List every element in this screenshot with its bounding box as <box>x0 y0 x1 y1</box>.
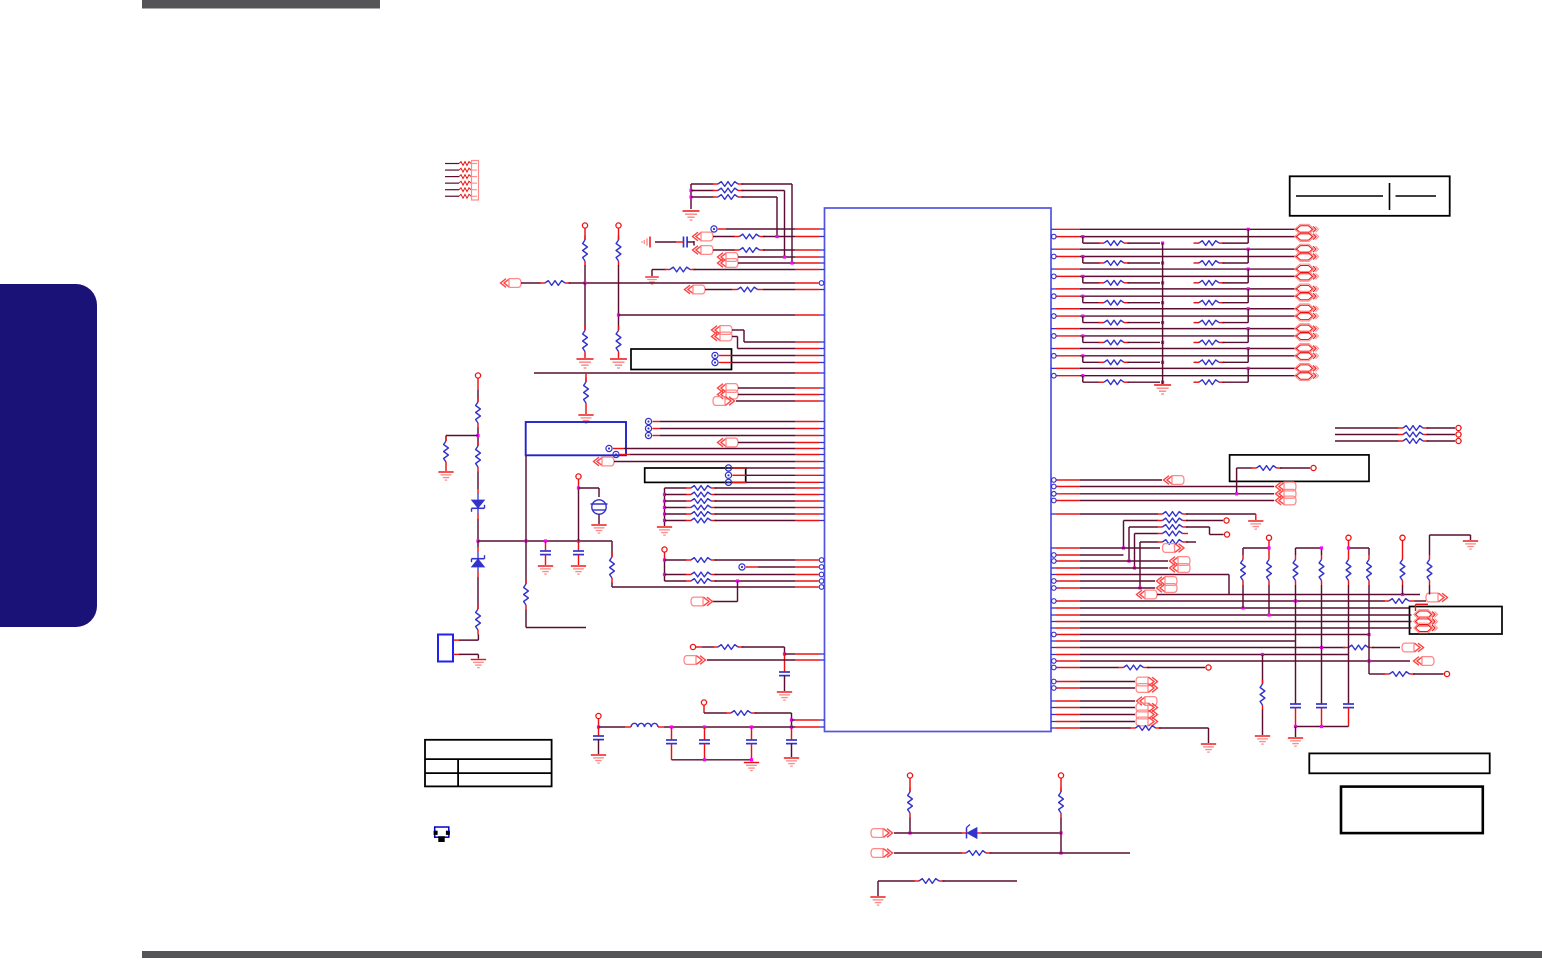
revision table <box>425 740 552 787</box>
row to connector stack <box>1057 493 1081 495</box>
wire <box>618 265 620 283</box>
resistor R112 <box>445 437 447 442</box>
wire <box>742 183 793 185</box>
wire <box>719 355 732 357</box>
row <box>1051 647 1056 649</box>
capacitor C6 <box>704 727 706 740</box>
off-page connector <box>1136 684 1158 693</box>
wire <box>1268 585 1270 615</box>
net power bus 727 <box>599 726 626 728</box>
wire <box>620 454 630 456</box>
wire <box>585 373 587 382</box>
resistor R113 <box>477 442 479 447</box>
resistor R153 <box>1135 533 1159 535</box>
bus row A group 6 <box>1051 328 1056 330</box>
junction <box>1320 646 1323 649</box>
wire row SMBCLK <box>718 228 726 230</box>
row to connector stack <box>1057 486 1081 488</box>
pin pad <box>1206 665 1211 670</box>
ground G13 <box>744 763 759 771</box>
resistor R170 <box>909 788 911 793</box>
resistor R106 <box>652 269 666 271</box>
resistor bank element <box>1368 555 1370 560</box>
resistor R154 <box>1140 541 1158 543</box>
wire <box>1157 594 1229 596</box>
off-page connector <box>684 656 706 665</box>
wire <box>655 241 676 243</box>
wire <box>1348 585 1350 704</box>
wire <box>982 832 1062 834</box>
junction <box>524 539 527 542</box>
wire <box>1348 541 1350 556</box>
junction <box>476 434 479 437</box>
wire <box>653 421 661 423</box>
wire <box>738 387 795 389</box>
wire <box>1321 585 1323 704</box>
resistor R131 <box>665 574 687 576</box>
wire cap bus <box>1296 726 1349 728</box>
ground G22 <box>471 660 486 668</box>
ground G19 <box>1463 541 1478 549</box>
capacitor <box>1343 703 1354 705</box>
wire <box>598 719 600 728</box>
connector tag group 7 <box>1295 344 1319 354</box>
off-page connector <box>1137 590 1158 599</box>
resistor R124 <box>663 512 666 515</box>
off-page connector <box>693 232 714 241</box>
off-page connector <box>1276 489 1297 498</box>
row to hex connector <box>1051 621 1056 623</box>
wire <box>477 541 479 547</box>
connector tag group 5 <box>1295 304 1319 314</box>
wire <box>477 519 479 541</box>
wire <box>742 646 785 648</box>
junction <box>1401 593 1404 596</box>
junction <box>908 831 911 834</box>
junction <box>790 261 793 264</box>
wire <box>653 435 661 437</box>
resistor R171 <box>1060 788 1062 793</box>
zener diode D3 <box>967 828 977 839</box>
off-page connector <box>712 332 733 341</box>
resistor R120 <box>665 487 687 489</box>
pin pad <box>701 700 706 705</box>
junction <box>1261 653 1264 656</box>
wire <box>1242 585 1244 608</box>
wire <box>736 400 795 402</box>
resistor R101 <box>691 183 714 185</box>
row <box>1051 607 1056 609</box>
page bottom footer bar <box>142 951 1542 958</box>
resistor R141 <box>1237 467 1252 469</box>
row <box>1051 721 1056 723</box>
wire <box>1295 585 1297 704</box>
bus row B group 5 <box>1057 315 1081 317</box>
bus row A group 3 <box>1051 268 1056 270</box>
ground G16 <box>1248 521 1263 529</box>
wire <box>578 479 580 488</box>
junction <box>597 725 600 728</box>
wire <box>1139 542 1141 588</box>
bus row B group 3 <box>1057 275 1081 277</box>
row to connector stack <box>1057 500 1081 502</box>
resistor R105 <box>713 249 735 251</box>
resistor R122 <box>663 499 666 502</box>
resistor bank element <box>1429 555 1431 560</box>
capacitor C4 <box>598 727 600 736</box>
series resistor pair group 1 <box>1082 237 1084 244</box>
row <box>1051 700 1056 702</box>
pin marker <box>725 472 731 478</box>
wire <box>909 778 911 792</box>
resistor R116 <box>611 553 613 558</box>
off-page connector <box>1276 496 1297 505</box>
resistor R159 <box>1118 667 1124 669</box>
pin pad <box>1224 518 1229 523</box>
junction <box>783 255 786 258</box>
bus row A group 2 <box>1051 248 1056 250</box>
capacitor C2 <box>578 541 580 551</box>
wire <box>1413 673 1444 675</box>
label box B (dark blue) <box>526 422 626 455</box>
resistor bank element <box>1268 555 1270 560</box>
wire <box>477 472 479 490</box>
off-page connector <box>1426 593 1448 602</box>
resistor R108 <box>584 326 586 331</box>
wire <box>1134 534 1136 569</box>
connector J2 (blue box) <box>438 635 453 662</box>
label box E <box>1341 787 1483 834</box>
row to hex connector <box>1051 627 1056 629</box>
row with tag <box>1051 547 1056 549</box>
resistor R107 <box>540 282 546 284</box>
row long elbow <box>1051 574 1056 576</box>
resistor R123 <box>663 506 666 509</box>
resistor R172 <box>961 852 967 854</box>
junction <box>689 189 692 192</box>
resistor R155 <box>1384 600 1390 602</box>
row <box>1057 681 1081 683</box>
off-page connector <box>718 384 739 393</box>
bus row B group 6 <box>1057 335 1081 337</box>
wire <box>719 362 732 364</box>
wire <box>738 394 795 396</box>
wire x526 chain <box>525 541 527 584</box>
resistor ladder bus <box>664 488 666 526</box>
off-page connector <box>1170 564 1191 573</box>
junction <box>1367 633 1370 636</box>
bus row B group 4 <box>1057 295 1081 297</box>
resistor R140 <box>1335 427 1399 429</box>
series resistor pair group 7 <box>1082 356 1084 363</box>
component icon <box>434 827 450 842</box>
row <box>1051 707 1056 709</box>
row <box>1057 634 1081 636</box>
off-page connector <box>1157 577 1178 586</box>
bus row A group 4 <box>1051 288 1056 290</box>
connector tag group 4 <box>1295 284 1319 294</box>
wire <box>521 282 541 284</box>
wire <box>584 228 586 240</box>
ground G6 <box>445 467 447 472</box>
row <box>1057 660 1081 662</box>
resistor R157 <box>1262 680 1264 685</box>
title block rule <box>1296 195 1383 197</box>
off-page connector <box>871 849 893 858</box>
wire <box>614 461 795 463</box>
capacitor C5 <box>671 727 673 740</box>
off-page connector <box>1163 544 1185 553</box>
wire <box>598 515 600 525</box>
row to off-page <box>1057 479 1081 481</box>
wire <box>733 481 747 483</box>
series resistor pair group 6 <box>1082 336 1084 343</box>
junction <box>583 281 586 284</box>
wire <box>707 659 795 661</box>
row <box>1057 667 1081 669</box>
wire <box>733 467 747 469</box>
wire <box>569 282 586 284</box>
ground G7 <box>591 525 606 533</box>
wire <box>990 852 1062 854</box>
crystal Y1 <box>592 500 606 514</box>
ground G3 <box>584 356 586 359</box>
resistor R158 <box>1384 673 1390 675</box>
label box F <box>1410 607 1503 635</box>
pin pad <box>475 373 480 378</box>
capacitor C3 <box>779 671 790 673</box>
off-page connector <box>712 326 733 335</box>
off-page connector <box>1164 476 1185 485</box>
wire <box>653 428 661 430</box>
wire <box>763 236 795 238</box>
series resistor pair group 3 <box>1082 276 1084 283</box>
wire <box>1123 521 1125 549</box>
junction <box>1294 725 1297 728</box>
resistor R150 <box>1051 513 1056 515</box>
junction <box>577 486 580 489</box>
wire <box>1295 727 1297 738</box>
wire <box>664 552 666 560</box>
pin marker <box>645 425 651 431</box>
pin marker <box>725 465 731 471</box>
off-page connector <box>1414 657 1435 666</box>
row stub <box>1057 554 1081 556</box>
array termination bus <box>1162 243 1164 384</box>
connector tag group 2 <box>1295 244 1319 254</box>
wire <box>694 269 796 271</box>
page top header bar <box>142 0 380 9</box>
wire x585 chain down <box>584 283 586 330</box>
resistor bank element <box>1348 555 1350 560</box>
pin marker <box>725 479 731 485</box>
wire <box>742 190 785 192</box>
pin marker <box>606 445 612 451</box>
pin header pad <box>616 223 621 228</box>
resistor R130 <box>665 559 687 561</box>
off-page connector <box>1137 697 1158 706</box>
junction <box>1241 606 1244 609</box>
row <box>1057 687 1081 689</box>
wire <box>1429 535 1431 555</box>
signal ground <box>642 237 650 248</box>
junction <box>670 725 673 728</box>
wire <box>733 474 747 476</box>
wire vertical <box>791 184 793 263</box>
pin marker <box>613 451 619 457</box>
off-page connector <box>685 285 706 294</box>
wire <box>737 581 739 602</box>
ground G11 <box>777 692 792 700</box>
off-page connector <box>1276 482 1297 491</box>
off-page connector <box>691 597 713 606</box>
ground G14 <box>784 758 799 766</box>
resistor R156 <box>1343 647 1349 649</box>
wire <box>1368 661 1370 674</box>
wire <box>785 653 796 655</box>
resistor bank element <box>1295 555 1297 560</box>
resistor R133 <box>713 646 719 648</box>
wire <box>1262 655 1264 685</box>
title block rule 2 <box>1396 195 1437 197</box>
resistor R140 <box>1335 440 1399 442</box>
wire cap to net <box>687 241 694 243</box>
ground G15 <box>1154 385 1171 394</box>
wire <box>784 676 786 692</box>
wire box B2 to bus <box>525 456 527 542</box>
ground G9 <box>571 566 586 574</box>
wire <box>877 881 879 896</box>
connector tag group 6 <box>1295 324 1319 334</box>
connector hex stack <box>1414 610 1438 620</box>
zener diode D1 <box>472 500 485 508</box>
wire <box>525 610 527 628</box>
resistor bank element <box>1242 555 1244 560</box>
wire <box>746 566 758 568</box>
pin pad <box>1311 465 1316 470</box>
resistor R134 <box>726 712 732 714</box>
wire <box>703 705 705 713</box>
label box B <box>645 468 746 482</box>
wire <box>1186 513 1256 515</box>
row to hex connector <box>1051 614 1056 616</box>
series resistor pair group 5 <box>1082 316 1084 323</box>
pin pad <box>596 713 601 718</box>
pin marker <box>712 359 718 365</box>
zener diode D2 <box>472 559 485 567</box>
capacitor C1 <box>545 541 547 551</box>
no-connect pin marker <box>711 226 717 232</box>
resistor R103 <box>691 196 714 198</box>
junction <box>790 718 793 721</box>
wire <box>755 712 792 714</box>
resistor R140 <box>1335 434 1399 436</box>
junction <box>617 313 620 316</box>
wire <box>1060 778 1062 792</box>
row <box>1057 580 1081 582</box>
bus row B group 1 <box>1057 236 1081 238</box>
junction <box>1294 599 1297 602</box>
off-page connector <box>718 253 739 262</box>
off-page connector <box>501 279 522 288</box>
resistor R111 <box>477 398 479 403</box>
wire lower bus <box>672 759 752 761</box>
ground G18 <box>1201 744 1216 752</box>
wire <box>477 428 479 447</box>
pin pad <box>690 644 695 649</box>
off-page connector <box>1136 710 1158 719</box>
resistor R114 <box>477 605 479 610</box>
wire <box>738 256 795 258</box>
resistor R152 <box>1129 526 1158 528</box>
resistor R102 <box>691 190 714 192</box>
wire <box>763 249 795 251</box>
row <box>1051 654 1056 656</box>
off-page connector <box>1402 643 1424 652</box>
ground G17 <box>1255 736 1270 744</box>
capacitor <box>1316 703 1327 705</box>
EC controller U1 body <box>825 208 1052 732</box>
off-page connector <box>594 457 615 466</box>
wire <box>1402 585 1404 595</box>
wire <box>1186 520 1223 522</box>
resistor bank element <box>1321 555 1323 560</box>
pin pad <box>1266 535 1271 540</box>
wire <box>618 228 620 240</box>
off-page connector <box>718 438 739 447</box>
ground G5 <box>585 408 587 415</box>
wire <box>909 818 911 834</box>
off-page connector <box>713 397 735 406</box>
bus row A group 7 <box>1051 348 1056 350</box>
resistor R110 <box>585 378 587 383</box>
pin pad <box>1224 532 1229 537</box>
off-page connector <box>693 246 714 255</box>
wire <box>477 635 479 641</box>
ground G1 <box>683 211 700 220</box>
net wire row 373 <box>534 372 795 374</box>
inductor L1 <box>631 723 658 727</box>
row <box>1057 600 1081 602</box>
wire row to IC <box>619 314 796 316</box>
resistor R117 <box>705 289 732 291</box>
row <box>1051 714 1056 716</box>
ground G12 <box>591 755 606 763</box>
ground G2 <box>651 270 653 277</box>
wire <box>943 880 1018 882</box>
wire vertical <box>784 191 786 258</box>
wire <box>738 442 795 444</box>
resistor R109 <box>618 326 620 331</box>
junction <box>476 539 479 542</box>
wire <box>1262 710 1264 736</box>
wire <box>611 583 613 588</box>
junction <box>1367 659 1370 662</box>
pin pad <box>662 547 667 552</box>
ground G20 <box>1288 738 1303 746</box>
wire <box>1186 526 1210 528</box>
off-page connector <box>718 390 739 399</box>
ground G10 <box>657 527 672 535</box>
wire <box>584 265 586 283</box>
junction <box>663 558 666 561</box>
wire <box>1415 600 1427 602</box>
wire <box>1186 541 1196 543</box>
series resistor pair group 4 <box>1082 296 1084 303</box>
resistor pack RP1 <box>445 161 479 201</box>
pin pad <box>576 474 581 479</box>
wire x612 to row 587 <box>611 541 613 557</box>
